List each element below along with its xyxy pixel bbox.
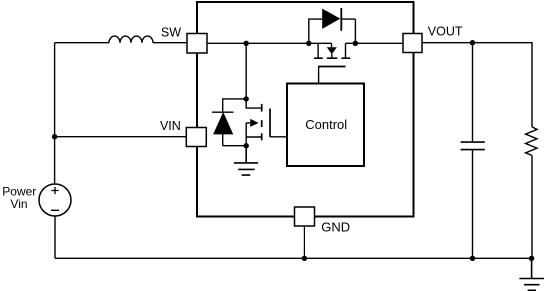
- wire: top-left from source to inductor: [55, 42, 109, 44]
- node: resistor bottom junction: [529, 256, 534, 261]
- wire: bottom ground rail: [55, 257, 532, 259]
- inductor L1: [109, 36, 153, 43]
- wire: VIN horizontal: [55, 136, 187, 138]
- node: cap bottom junction: [470, 256, 475, 261]
- body diode drop: [331, 43, 333, 47]
- wire: left vertical Vin rail: [54, 43, 56, 184]
- pin GND: [295, 207, 315, 226]
- gate plate: [318, 66, 345, 68]
- wire: SW line inside IC (right part): [346, 42, 404, 44]
- node: SW line junction: [244, 41, 249, 46]
- plus sign of V1: [51, 187, 58, 194]
- diode D1 high-side (catch diode): [309, 19, 356, 43]
- control block U2: [287, 84, 364, 167]
- wire: below resistor to rail: [531, 155, 533, 258]
- wire: inductor to SW pin: [153, 42, 187, 44]
- minus sign of V1: [51, 209, 59, 211]
- svg-text:VIN: VIN: [160, 119, 181, 133]
- node: GND/rail junction: [302, 256, 307, 261]
- source lead: [345, 43, 347, 58]
- diode D2 low-side (anode up): [212, 99, 246, 112]
- node: VOUT/cap junction: [470, 40, 475, 45]
- ground: under low-side fet: [234, 146, 258, 175]
- gate bar: [269, 109, 271, 137]
- pin SW: [187, 34, 207, 54]
- voltage source V1 Power Vin: [39, 184, 71, 216]
- node: low-side top junction: [244, 96, 249, 101]
- gate lead down to control: [318, 67, 320, 84]
- svg-text:GND: GND: [321, 219, 350, 234]
- node: low-side bottom junction: [244, 143, 249, 148]
- resistor R1 load: [526, 127, 537, 155]
- wire: SW branch down to low-side fet: [245, 43, 247, 99]
- pin VIN: [186, 128, 206, 147]
- pin VOUT: [403, 34, 422, 53]
- svg-text:VOUT: VOUT: [428, 25, 463, 39]
- drain lead: [317, 43, 319, 58]
- node: high-side right junction: [353, 41, 358, 46]
- svg-text:Vin: Vin: [10, 197, 27, 211]
- node: junction Vin rail / VIN wire: [52, 134, 57, 139]
- gate lead to control: [270, 136, 287, 138]
- channel bars: [314, 57, 350, 59]
- channel bars: [261, 104, 263, 140]
- IC U1 body: [197, 2, 414, 217]
- wire: VOUT to top-right corner and down to load: [422, 43, 532, 127]
- capacitor C1 output: [472, 43, 474, 142]
- drain lead: [246, 99, 262, 108]
- wire: SW line inside IC (left part): [207, 42, 332, 44]
- source lead: [246, 123, 262, 146]
- svg-text:Control: Control: [305, 117, 347, 132]
- wire: GND pin drop to rail: [303, 226, 305, 258]
- wire: below source to bottom rail: [54, 216, 56, 258]
- body arrow: [246, 122, 250, 124]
- node: high-side left junction: [306, 41, 311, 46]
- svg-text:SW: SW: [161, 25, 181, 39]
- ground: bottom right: [519, 258, 544, 290]
